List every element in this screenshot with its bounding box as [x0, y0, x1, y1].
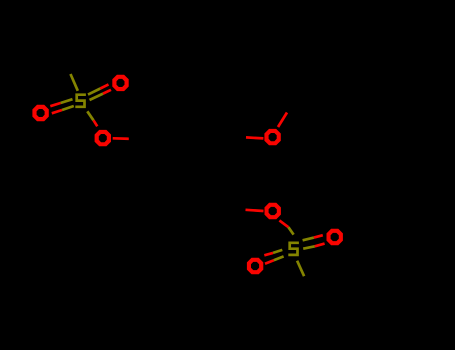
bottom mesylate O-S bond olive half	[288, 227, 293, 234]
bottom mesylate S=O lower-left double bond line A red half	[264, 253, 273, 255]
bottom ester O to CH2 bond red half	[246, 210, 264, 211]
top mesylate S=O left double bond line A olive half	[61, 99, 73, 103]
sulfur atom S2 (bottom mesylate)	[288, 243, 299, 255]
oxygen atom O3 (top mesylate ester O)	[95, 130, 111, 146]
bottom mesylate S=O lower-left double bond line A olive half	[273, 250, 282, 253]
oxygen atom O2 (top mesylate S=O left)	[32, 105, 48, 121]
oxygen atom O7 (bottom mesylate S=O lower left)	[247, 258, 263, 274]
bottom mesylate S=O lower-left double bond line B olive half	[274, 256, 284, 260]
top mesylate S-CH3 bond (olive half)	[71, 74, 78, 91]
top mesylate S=O left double bond line B red half	[52, 110, 62, 113]
top mesylate S=O upper-right double bond line A olive half	[88, 89, 100, 95]
sulfur atom S1 (top mesylate)	[75, 95, 86, 107]
bottom mesylate S=O right double bond line B olive half	[303, 246, 315, 248]
top mesylate S=O left double bond line A red half	[50, 103, 60, 106]
oxygen atom O6 (bottom mesylate S=O right)	[327, 229, 343, 245]
oxygen atom O5 (bottom mesylate ester O)	[265, 203, 281, 219]
top mesylate S=O upper-right double bond line B red half	[103, 90, 111, 94]
bottom mesylate S=O right double bond line A olive half	[303, 238, 314, 241]
top mesylate S=O upper-right double bond line B olive half	[90, 94, 104, 100]
bottom mesylate S=O right double bond line B red half	[315, 244, 325, 247]
bottom mesylate S=O lower-left double bond line B red half	[265, 260, 274, 264]
bottom mesylate S-CH3 bond olive half	[297, 261, 304, 277]
top mesylate S=O left double bond line B olive half	[62, 106, 74, 110]
bottom mesylate O-S bond red half	[279, 220, 288, 227]
oxygen atom O4 (benzyloxy O)	[264, 129, 280, 145]
top mesylate S-O ester bond red half	[94, 120, 98, 126]
benzyloxy O to CH2 bond red half	[278, 113, 287, 128]
top mesylate S=O upper-right double bond line A red half	[100, 84, 108, 88]
benzyloxy O to ring bond red half	[246, 137, 263, 138]
bottom mesylate S=O right double bond line A red half	[314, 235, 323, 237]
top mesylate ester O to ring bond red half	[113, 137, 129, 140]
top mesylate S-O ester bond olive half	[87, 111, 93, 120]
oxygen atom O1 (top mesylate S=O upper right)	[112, 75, 128, 91]
